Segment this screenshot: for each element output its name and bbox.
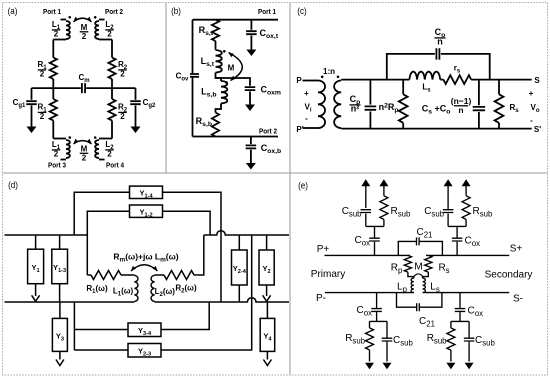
wire Csub TL lower bbox=[365, 214, 367, 227]
ground arrow Coxb bbox=[246, 163, 256, 170]
wire P- rail bbox=[325, 292, 414, 294]
inductor L2/2 top-right bbox=[99, 19, 105, 21]
wire bottom rail (c) bbox=[341, 128, 532, 130]
wire Y3-4 right bbox=[161, 302, 209, 330]
svg-text:-: - bbox=[530, 116, 533, 125]
wire Y1 bottom arrow bbox=[35, 284, 37, 296]
wire left lower (b) bbox=[192, 78, 194, 137]
svg-text:Port 4: Port 4 bbox=[106, 162, 124, 170]
separator b|c and d|e bbox=[289, 3, 291, 375]
node rail left segment bbox=[32, 87, 81, 89]
capacitor Csub TR bbox=[443, 210, 454, 213]
wire C21 top loop bbox=[398, 241, 442, 255]
svg-text:n²: n² bbox=[351, 104, 360, 114]
box Y2-4 bbox=[232, 250, 248, 285]
wire Y1-2 left bbox=[87, 211, 129, 275]
capacitor Cov bbox=[190, 74, 199, 77]
wire Y1-2 right bbox=[163, 211, 211, 235]
wire Y4 arrow bbox=[266, 351, 268, 359]
resistor Rsb bbox=[212, 113, 219, 137]
resistor R2/2 lower bbox=[111, 88, 113, 99]
wire Cs branch upper bbox=[478, 80, 480, 106]
resistor Rsub BL bbox=[369, 321, 371, 328]
box Y1-4 bbox=[130, 186, 163, 198]
wire bottom rail (b) bbox=[193, 136, 279, 138]
capacitor Cox TR bbox=[452, 238, 463, 241]
resistor rs bbox=[443, 75, 471, 84]
transformer secondary winding bbox=[334, 81, 341, 129]
svg-text:M: M bbox=[81, 145, 88, 154]
resistor R2(w) bbox=[164, 271, 194, 280]
inductor L1(w) bbox=[135, 275, 138, 301]
svg-text:2: 2 bbox=[120, 70, 125, 79]
svg-text:P': P' bbox=[296, 125, 303, 134]
svg-text:Port 2: Port 2 bbox=[105, 9, 123, 17]
wire pair join BL bbox=[370, 320, 388, 322]
wire right branch to rail bbox=[111, 79, 113, 88]
resistor R1/2 upper bbox=[50, 58, 57, 80]
resistor Rst bbox=[212, 20, 219, 41]
svg-text:(e): (e) bbox=[298, 180, 308, 191]
resistor Rsub BR bbox=[450, 321, 452, 328]
wire C21 bottom loop bbox=[397, 293, 442, 308]
capacitor Cg2 bbox=[130, 101, 141, 104]
svg-text:Primary: Primary bbox=[311, 269, 345, 280]
wire left lower vertical bbox=[73, 302, 75, 350]
wire Cg2 upper bbox=[135, 88, 137, 100]
box Y3-4 bbox=[128, 323, 161, 337]
svg-text:S: S bbox=[534, 76, 540, 85]
wire Coxb upper bbox=[250, 137, 252, 145]
wire Csub BR upper bbox=[468, 321, 470, 338]
phase dot bottom-right bbox=[94, 136, 97, 139]
wire Y2 bottom arrow bbox=[266, 285, 268, 296]
wire Y1 top bbox=[35, 235, 37, 249]
inductor L2(w) bbox=[151, 275, 154, 301]
svg-text:n: n bbox=[437, 37, 443, 47]
wire left branch upper bbox=[52, 40, 54, 58]
capacitor Csub BR bbox=[464, 338, 475, 341]
phase dot primary bbox=[321, 76, 324, 79]
svg-text:(c): (c) bbox=[297, 5, 306, 16]
arrow up Csub TR bbox=[447, 186, 449, 209]
box Y2-3 bbox=[128, 344, 161, 358]
wire right rail (port2) with hop bbox=[204, 231, 289, 235]
svg-text:2: 2 bbox=[82, 32, 87, 41]
capacitor Cox TL bbox=[369, 238, 380, 241]
resistor n2Rp bbox=[402, 80, 404, 95]
wire right branch upper bbox=[111, 40, 113, 58]
phase dot top-right bbox=[94, 16, 97, 19]
box Y1 bbox=[28, 249, 44, 284]
svg-text:2: 2 bbox=[40, 70, 45, 79]
svg-text:M: M bbox=[414, 262, 422, 273]
mutual arrow M (b) bbox=[229, 53, 243, 81]
arrow down Csub BR bbox=[468, 342, 470, 362]
wire Y3 top bbox=[59, 302, 61, 318]
wire S- rail bbox=[423, 292, 510, 294]
phase dot bottom-left bbox=[69, 136, 72, 139]
capacitor Coxm bbox=[245, 87, 256, 90]
svg-text:S-: S- bbox=[513, 294, 523, 305]
wire Y1-4 left bbox=[74, 192, 129, 235]
capacitor Coxt bbox=[246, 31, 257, 34]
wire Rsub TR lower bbox=[465, 219, 467, 226]
wire bottom-right rail (port4) with hop bbox=[155, 298, 290, 302]
mutual arrow M/2 top bbox=[74, 18, 92, 22]
svg-text:Port 3: Port 3 bbox=[48, 162, 66, 170]
separator a|b bbox=[165, 3, 167, 173]
svg-text:M: M bbox=[228, 64, 235, 73]
inductor Ls (e) bbox=[423, 278, 426, 292]
svg-text:+: + bbox=[304, 89, 309, 98]
wire S+ rail bbox=[426, 254, 509, 256]
arrow down Rsub BR bbox=[450, 350, 452, 362]
svg-text:2: 2 bbox=[82, 153, 87, 162]
phase dot top-left bbox=[69, 16, 72, 19]
svg-text:(a): (a) bbox=[8, 5, 18, 16]
wire Y1-3 bottom bbox=[59, 284, 61, 302]
wire Y2-3 left bbox=[74, 349, 128, 351]
svg-text:-: - bbox=[305, 114, 308, 123]
wire Co/n loop bbox=[387, 54, 490, 80]
capacitor C21 bottom bbox=[417, 303, 420, 311]
wire left upper (b) bbox=[192, 20, 194, 73]
wire P' to winding bbox=[303, 127, 319, 129]
resistor R1/2 lower bbox=[52, 88, 54, 99]
capacitor Cg1 bbox=[26, 101, 37, 104]
wire left branch to rail bbox=[52, 79, 54, 88]
wire R1 to L1 bbox=[121, 274, 135, 276]
wire Csub TR lower bbox=[447, 214, 449, 227]
svg-text:P+: P+ bbox=[317, 244, 330, 255]
phase dot Lst bbox=[223, 50, 226, 53]
svg-text:+: + bbox=[529, 89, 534, 98]
wire L2 to R2 bbox=[155, 274, 165, 276]
wire Y4 top bbox=[266, 302, 268, 318]
wire Y2-3 right bbox=[161, 235, 252, 350]
wire Lsb to Rsb bbox=[216, 104, 222, 113]
svg-text:2: 2 bbox=[54, 30, 59, 39]
capacitor Cm bbox=[82, 83, 85, 93]
capacitor Csub BL bbox=[382, 338, 393, 341]
wire Cox TL lower bbox=[374, 242, 376, 256]
arrow up Rsub TR bbox=[465, 186, 467, 196]
resistor R2/2 upper bbox=[108, 58, 115, 80]
wire Y3 arrow bbox=[59, 351, 61, 359]
wire Cox BR upper bbox=[459, 293, 461, 308]
wire Y2 top bbox=[266, 235, 268, 250]
wire P to winding bbox=[303, 80, 319, 82]
wire top rail (b) bbox=[193, 19, 279, 21]
inductor Lst bbox=[216, 50, 222, 72]
resistor Rsub TR bbox=[462, 196, 470, 220]
svg-text:Secondary: Secondary bbox=[485, 270, 533, 281]
node rail right segment bbox=[86, 87, 135, 89]
capacitor Cs+Co bbox=[473, 107, 485, 110]
resistor R1(w) bbox=[87, 274, 91, 276]
svg-text:2: 2 bbox=[120, 112, 125, 121]
resistor Rs (c) bbox=[498, 80, 500, 95]
ground arrow left bbox=[27, 127, 37, 134]
capacitor Cox BL bbox=[371, 309, 382, 312]
phase dot Lsb bbox=[225, 81, 228, 84]
inductor L1/2 bottom-left bbox=[53, 138, 66, 140]
wire Rp to Lp bbox=[408, 272, 414, 278]
inductor L2/2 bottom-right bbox=[99, 138, 112, 140]
svg-text:n: n bbox=[458, 105, 463, 115]
wire left rail (port1) bbox=[5, 234, 88, 236]
box Y1-2 bbox=[130, 205, 163, 217]
arrow up Rsub TL bbox=[383, 186, 385, 196]
svg-text:2: 2 bbox=[107, 150, 112, 159]
arrow down Csub BL bbox=[386, 342, 388, 362]
wire Cg2 lower bbox=[135, 106, 137, 128]
arrow down Rsub BL bbox=[369, 350, 371, 362]
wire Cox TL upper bbox=[374, 226, 376, 237]
wire Csub BL upper bbox=[386, 321, 388, 338]
separator top|bottom bbox=[3, 172, 547, 174]
capacitor Cp/n2 bbox=[365, 106, 377, 109]
arrow up Csub TL bbox=[365, 186, 367, 208]
wire Coxm lower bbox=[249, 91, 251, 105]
box Y1-3 bbox=[52, 249, 68, 284]
svg-text:S': S' bbox=[534, 125, 541, 134]
wire P+ rail bbox=[325, 254, 411, 256]
box Y4 bbox=[260, 318, 275, 351]
wire Rsub TL lower bbox=[383, 219, 385, 226]
wire top rail left (c) bbox=[341, 79, 409, 81]
box Y2 bbox=[259, 250, 274, 285]
wire Cox TR upper bbox=[456, 226, 458, 237]
capacitor C21 top bbox=[417, 237, 420, 245]
wire Cox BL lower bbox=[376, 312, 378, 321]
mutual arrow M/2 bottom bbox=[74, 141, 92, 144]
box Y3 bbox=[52, 318, 67, 351]
wire Cp branch upper bbox=[369, 80, 371, 105]
capacitor Co/n bbox=[436, 48, 439, 59]
wire Coxb lower bbox=[250, 150, 252, 163]
resistor Rsub TL bbox=[380, 196, 388, 220]
phase dot secondary bbox=[337, 76, 340, 79]
wire Ls to rs bbox=[440, 79, 443, 81]
wire Y3-4 left bbox=[74, 329, 128, 331]
wire Coxm horiz bbox=[216, 78, 251, 86]
wire Cox BL upper bbox=[376, 293, 378, 308]
wire pair join TR bbox=[448, 225, 466, 227]
wire Cox BR lower bbox=[459, 312, 461, 321]
capacitor Csub TL bbox=[361, 210, 372, 213]
wire Y1-3 top bbox=[59, 235, 61, 249]
svg-text:Port 1: Port 1 bbox=[258, 9, 276, 17]
wire Coxt upper bbox=[250, 20, 252, 30]
wire Y2-4 bottom bbox=[238, 285, 240, 302]
svg-text:1:n: 1:n bbox=[323, 67, 335, 76]
svg-text:2: 2 bbox=[54, 150, 59, 159]
wire jog between coils bbox=[216, 73, 222, 82]
inductor L1/2 top-left bbox=[61, 19, 67, 21]
wire Cg1 upper bbox=[31, 88, 33, 100]
mutual arrow Rm (d) bbox=[131, 265, 158, 271]
svg-text:2: 2 bbox=[40, 112, 45, 121]
svg-text:P-: P- bbox=[316, 293, 326, 304]
capacitor Cox BR bbox=[455, 309, 466, 312]
svg-text:Port 1: Port 1 bbox=[43, 9, 61, 17]
svg-text:2: 2 bbox=[107, 30, 112, 39]
wire bottom-left rail (port3) bbox=[5, 301, 135, 303]
resistor Rp (e) bbox=[404, 255, 411, 272]
transformer primary winding bbox=[318, 81, 325, 129]
mutual arc M (e) bbox=[414, 274, 423, 276]
svg-text:P: P bbox=[296, 76, 302, 85]
ground arrow Coxt bbox=[246, 50, 256, 57]
wire Y1-4 right bbox=[163, 192, 222, 302]
wire Cs branch lower bbox=[478, 112, 480, 129]
resistor Rs (e) bbox=[425, 255, 432, 272]
ground arrow Coxm bbox=[245, 105, 255, 112]
wire Rs to Ls bbox=[423, 272, 429, 278]
svg-text:S+: S+ bbox=[510, 244, 523, 255]
wire pair join BR bbox=[451, 320, 469, 322]
wire rs to node bbox=[471, 79, 532, 81]
svg-text:M: M bbox=[81, 23, 88, 32]
svg-text:(d): (d) bbox=[8, 179, 18, 190]
svg-text:(b): (b) bbox=[171, 5, 181, 16]
inductor Lp (e) bbox=[411, 278, 414, 292]
inductor Lsb bbox=[221, 81, 227, 103]
wire pair join TL bbox=[366, 225, 384, 227]
wire right rail to R2 bbox=[196, 235, 203, 275]
inductor Ls (c) bbox=[409, 72, 440, 80]
svg-text:Port 2: Port 2 bbox=[259, 128, 277, 136]
capacitor Coxb bbox=[246, 145, 257, 148]
wire Cp branch lower bbox=[369, 112, 371, 129]
ground arrow right bbox=[131, 127, 141, 134]
wire Coxt lower bbox=[250, 36, 252, 51]
wire Cg1 lower bbox=[31, 106, 33, 128]
wire Y2-4 top bbox=[238, 235, 240, 250]
wire Rst to Lst bbox=[215, 41, 217, 50]
wire Cox TR lower bbox=[456, 242, 458, 256]
